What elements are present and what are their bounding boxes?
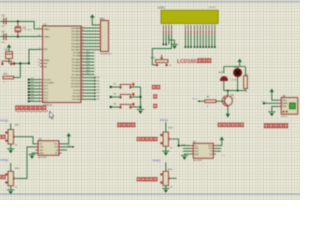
svg-text:RESPACK-8: RESPACK-8	[100, 53, 112, 56]
svg-text:11.0592MHz: 11.0592MHz	[23, 30, 32, 32]
svg-text:P32: P32	[96, 83, 99, 85]
svg-text:P3.2: P3.2	[193, 98, 198, 100]
svg-text:P0.5/AD5: P0.5/AD5	[71, 42, 81, 45]
svg-text:32: 32	[82, 48, 84, 50]
svg-text:P0.2/AD2: P0.2/AD2	[71, 33, 81, 36]
svg-text:P0.6/AD6: P0.6/AD6	[71, 45, 81, 48]
svg-text:P16: P16	[31, 97, 34, 99]
svg-text:16: 16	[82, 95, 84, 97]
svg-text:24: 24	[82, 61, 84, 63]
svg-text:P3.5/T1: P3.5/T1	[73, 93, 81, 95]
svg-text:12: 12	[82, 82, 84, 84]
svg-text:5: 5	[187, 24, 188, 26]
svg-text:P3.1/TXD: P3.1/TXD	[71, 81, 81, 83]
svg-text:2: 2	[165, 24, 166, 26]
svg-text:6: 6	[190, 24, 191, 26]
svg-text:21: 21	[82, 51, 84, 53]
svg-text:RV4(2): RV4(2)	[153, 159, 161, 162]
svg-text:RV1(2): RV1(2)	[0, 120, 8, 123]
svg-text:1k: 1k	[3, 81, 5, 83]
svg-text:C4: C4	[5, 49, 9, 52]
svg-text:12: 12	[208, 24, 210, 26]
svg-text:VCC: VCC	[208, 145, 213, 147]
svg-text:1k: 1k	[245, 91, 247, 93]
svg-text:38: 38	[82, 30, 84, 32]
svg-text:P13: P13	[31, 87, 34, 89]
svg-text:P22: P22	[86, 58, 89, 60]
svg-text:DHT11: DHT11	[281, 116, 288, 118]
svg-text:C2: C2	[2, 31, 6, 34]
svg-text:P2.1/A9: P2.1/A9	[73, 55, 81, 58]
svg-text:11: 11	[205, 24, 207, 26]
svg-text:13: 13	[211, 24, 213, 26]
svg-text:P3.4/T0: P3.4/T0	[73, 90, 81, 92]
svg-text:14: 14	[82, 89, 84, 91]
svg-text:NPN: NPN	[231, 98, 235, 100]
svg-text:XTAL2: XTAL2	[44, 35, 51, 38]
svg-text:RV3(2): RV3(2)	[160, 119, 168, 122]
svg-text:P1.1/T2EX: P1.1/T2EX	[44, 83, 55, 85]
svg-text:23: 23	[82, 58, 84, 60]
svg-text:11: 11	[82, 79, 84, 81]
svg-text:1k: 1k	[207, 106, 209, 108]
svg-text:P21: P21	[86, 54, 89, 56]
svg-text:P12: P12	[31, 84, 34, 86]
svg-text:P30: P30	[96, 77, 99, 79]
svg-text:17: 17	[82, 98, 84, 100]
svg-text:GND: GND	[39, 153, 44, 155]
svg-text:1k: 1k	[170, 147, 172, 149]
svg-text:U1: U1	[43, 22, 47, 26]
svg-text:R1: R1	[207, 96, 211, 98]
svg-text:22: 22	[82, 55, 84, 57]
svg-text:K1: K1	[114, 83, 117, 85]
svg-text:ADC0832: ADC0832	[193, 159, 203, 162]
svg-text:LCD1: LCD1	[158, 6, 166, 10]
svg-text:P24: P24	[86, 64, 89, 66]
svg-text:1: 1	[163, 24, 164, 26]
svg-text:P0.1/AD1: P0.1/AD1	[71, 30, 81, 33]
svg-text:ADC0832: ADC0832	[38, 156, 48, 159]
svg-text:P33: P33	[96, 87, 99, 89]
svg-text:RV4: RV4	[168, 169, 173, 171]
svg-text:LM016L: LM016L	[209, 7, 217, 9]
svg-text:P17: P17	[31, 100, 34, 102]
svg-text:30: 30	[38, 62, 40, 64]
svg-text:39: 39	[82, 27, 84, 29]
svg-text:P26: P26	[86, 70, 89, 72]
svg-text:PSEN: PSEN	[44, 60, 50, 62]
svg-text:P2.6/A14: P2.6/A14	[72, 70, 81, 73]
svg-text:1k: 1k	[169, 65, 171, 67]
svg-text:P11: P11	[31, 81, 34, 83]
svg-text:RV5(2): RV5(2)	[0, 159, 8, 162]
svg-text:P0.4/AD4: P0.4/AD4	[71, 39, 81, 42]
svg-text:10: 10	[202, 24, 204, 26]
svg-text:P2.7/A15: P2.7/A15	[72, 73, 81, 76]
svg-text:P20: P20	[86, 51, 89, 53]
svg-text:P34: P34	[96, 90, 99, 92]
svg-text:P0.7/AD7: P0.7/AD7	[71, 49, 81, 52]
svg-text:DO: DO	[210, 154, 213, 156]
svg-text:33: 33	[82, 45, 84, 47]
svg-text:P3.2/INT0: P3.2/INT0	[71, 84, 81, 86]
svg-text:4: 4	[185, 24, 186, 26]
svg-text:1k: 1k	[170, 187, 172, 189]
svg-text:P35: P35	[96, 93, 99, 95]
svg-text:26: 26	[82, 67, 84, 69]
svg-text:35: 35	[82, 39, 84, 41]
svg-text:P37: P37	[96, 99, 99, 101]
svg-text:P27: P27	[86, 73, 89, 75]
svg-text:P3.7/RD: P3.7/RD	[73, 99, 81, 101]
svg-text:4: 4	[171, 24, 172, 26]
svg-text:P36: P36	[96, 96, 99, 98]
svg-text:29: 29	[38, 59, 40, 61]
svg-text:P10: P10	[31, 78, 34, 80]
svg-text:P31: P31	[182, 144, 185, 146]
svg-text:13: 13	[82, 86, 84, 88]
svg-text:DATA: DATA	[282, 102, 288, 105]
svg-text:K3: K3	[114, 103, 117, 105]
svg-text:36: 36	[82, 36, 84, 38]
svg-text:25: 25	[82, 64, 84, 66]
svg-text:8: 8	[197, 24, 198, 26]
svg-text:P3.6/WR: P3.6/WR	[72, 96, 81, 98]
svg-text:GND: GND	[194, 154, 199, 156]
svg-text:1.1: 1.1	[222, 155, 226, 157]
svg-text:1k: 1k	[15, 186, 17, 188]
svg-text:RV5: RV5	[15, 168, 20, 170]
svg-text:31: 31	[38, 65, 40, 67]
svg-text:34: 34	[82, 42, 84, 44]
svg-text:7: 7	[194, 24, 195, 26]
svg-text:30pF: 30pF	[1, 42, 6, 44]
svg-text:P2.5/A13: P2.5/A13	[72, 67, 81, 70]
svg-text:P14: P14	[31, 91, 34, 93]
svg-text:CLK: CLK	[54, 147, 59, 149]
svg-text:1k: 1k	[15, 144, 17, 146]
svg-text:37: 37	[82, 33, 84, 35]
svg-text:LED-RED: LED-RED	[231, 79, 239, 81]
svg-text:VCC: VCC	[54, 144, 59, 146]
svg-text:LCD1602: LCD1602	[177, 59, 199, 65]
svg-text:RV1: RV1	[15, 125, 20, 127]
svg-text:P2.4/A12: P2.4/A12	[72, 64, 81, 67]
svg-text:RST: RST	[44, 49, 49, 51]
svg-text:9: 9	[200, 24, 201, 26]
svg-text:P25: P25	[86, 67, 89, 69]
svg-text:28: 28	[82, 73, 84, 75]
svg-text:27: 27	[82, 70, 84, 72]
svg-text:X3: X3	[23, 26, 27, 29]
svg-text:10: 10	[82, 76, 84, 78]
svg-text:30pF: 30pF	[1, 26, 6, 28]
svg-text:P2.3/A11: P2.3/A11	[72, 61, 81, 64]
svg-text:GND: GND	[282, 106, 287, 108]
svg-text:P23: P23	[86, 61, 89, 63]
svg-text:CLK: CLK	[209, 148, 214, 150]
svg-text:RV3: RV3	[168, 128, 173, 130]
svg-text:R10: R10	[3, 73, 8, 75]
svg-text:XTAL1: XTAL1	[44, 28, 51, 31]
svg-text:ALE: ALE	[44, 62, 49, 65]
svg-text:3: 3	[168, 24, 169, 26]
svg-text:C1: C1	[2, 15, 6, 18]
svg-text:P15: P15	[31, 94, 34, 96]
svg-text:RV2: RV2	[151, 57, 156, 59]
svg-text:DO: DO	[55, 153, 58, 155]
svg-text:P31: P31	[96, 80, 99, 82]
svg-text:P1.0/T2: P1.0/T2	[44, 79, 52, 81]
svg-text:Q1: Q1	[231, 94, 235, 97]
svg-text:P3.3/INT1: P3.3/INT1	[71, 87, 81, 89]
svg-text:15: 15	[82, 92, 84, 94]
svg-text:P14: P14	[67, 145, 70, 147]
svg-text:P0.0/AD0: P0.0/AD0	[71, 27, 81, 30]
svg-text:P0.3/AD3: P0.3/AD3	[71, 36, 81, 39]
svg-text:14: 14	[214, 24, 216, 26]
svg-text:VDD: VDD	[282, 100, 287, 102]
svg-text:P2.0/A8: P2.0/A8	[73, 52, 81, 55]
svg-text:K2: K2	[114, 93, 117, 95]
svg-text:P2.2/A10: P2.2/A10	[72, 58, 81, 61]
svg-text:P3.0/RXD: P3.0/RXD	[71, 77, 81, 79]
